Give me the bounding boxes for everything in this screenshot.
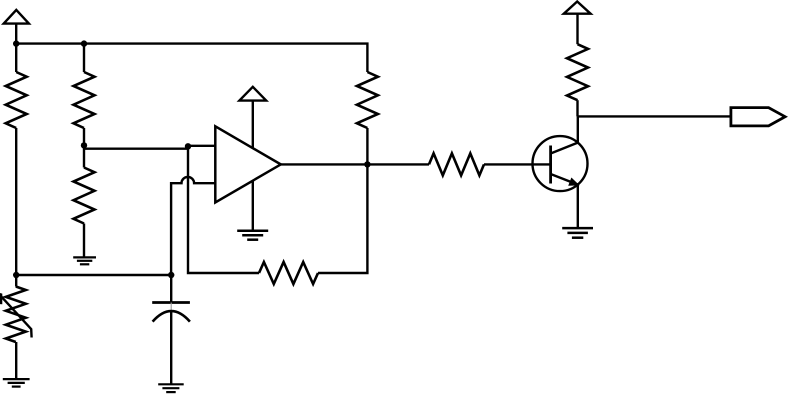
capacitor C1 top plate	[152, 301, 190, 304]
wire op-amp noninverting input (left segment)	[84, 147, 188, 149]
node junction pot line / capacitor	[168, 272, 174, 278]
wire collector lead	[577, 116, 579, 142]
wire capacitor top lead	[170, 275, 172, 303]
wire pot line (bottom left horizontal)	[16, 274, 171, 276]
resistor R4 (top, x=367)	[357, 72, 378, 128]
resistor R6 (base)	[429, 153, 484, 175]
ground (below transistor)	[562, 227, 593, 230]
transistor Q1 body	[533, 136, 588, 191]
wire R6 to transistor base	[484, 163, 551, 165]
wire R7 to collector node	[576, 100, 578, 116]
ground (below capacitor)	[158, 383, 184, 385]
wire feedback to output node	[318, 164, 367, 273]
ground (below op-amp)	[237, 229, 268, 232]
wire capacitor bottom lead	[170, 312, 172, 385]
ground (below potentiometer)	[3, 378, 30, 380]
resistor R7 (collector)	[567, 44, 588, 100]
transistor Q1 emitter diagonal with arrow	[551, 174, 578, 185]
wire output node to base resistor	[367, 163, 429, 165]
wire VCC2 to op-amp V+ pin	[252, 101, 254, 150]
potentiometer R8 (variable resistor)	[6, 287, 26, 343]
transistor Q1 collector diagonal	[551, 143, 578, 154]
wire pot to ground	[15, 342, 17, 379]
wire feedback vertical (tap down to feedback run)	[188, 146, 259, 273]
output connector OUT	[731, 108, 785, 126]
wire R3 to ground	[83, 224, 85, 258]
wire R1 to node pot line	[15, 128, 17, 275]
wire emitter to ground	[577, 185, 579, 229]
capacitor C1 curved plate	[153, 311, 190, 322]
resistor R3	[74, 168, 95, 224]
node junction output / R4 / feedback	[364, 161, 370, 167]
wire VCC1 to top rail	[15, 24, 17, 44]
ground (below R3)	[73, 256, 96, 258]
resistor R5 (feedback)	[259, 262, 318, 284]
wire rail to R2	[83, 44, 85, 72]
wire collector output line	[578, 115, 731, 117]
node junction rail/R1	[13, 40, 19, 46]
potentiometer wiper arrow	[1, 296, 31, 337]
node junction feedback tap on + input	[185, 143, 191, 149]
wire VCC3 to R7	[576, 14, 578, 45]
wire op-amp inverting input with hop over feedback	[171, 177, 216, 275]
wire divider node to R3	[83, 150, 85, 168]
wire top rail	[16, 44, 367, 72]
wire pot node to potentiometer	[15, 275, 17, 287]
power symbol VCC3 (top right)	[564, 2, 591, 14]
wire op-amp noninverting input (right segment)	[188, 145, 217, 147]
power symbol VCC1 (top left)	[4, 10, 29, 24]
transistor Q1 base bar	[549, 146, 552, 184]
capacitor C1 stub below plate	[170, 303, 172, 311]
node junction rail/R2	[81, 40, 87, 46]
wire op-amp output	[281, 163, 368, 165]
wire R4 to output node	[366, 128, 368, 164]
wire rail to R1	[15, 44, 17, 72]
node junction pot line left	[13, 272, 19, 278]
power symbol VCC2 (above op-amp)	[239, 87, 266, 101]
op-amp U1	[215, 126, 280, 202]
resistor R1	[6, 72, 27, 128]
wire op-amp V- pin to ground	[252, 179, 254, 231]
wire R2 to node divider	[83, 128, 85, 150]
node junction divider (R2/R3/op-amp +)	[81, 142, 87, 148]
resistor R2	[74, 72, 95, 128]
